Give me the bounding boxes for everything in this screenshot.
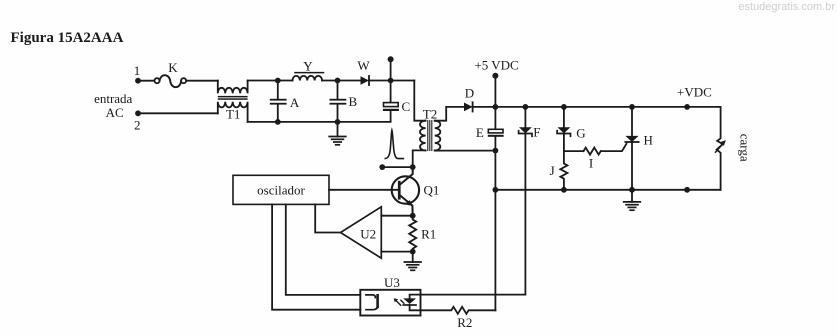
node B bottom <box>335 119 341 125</box>
node rail J <box>561 187 567 193</box>
carga arrow <box>716 143 724 152</box>
node R1 bottom <box>410 249 416 255</box>
wire to T2 primary <box>414 81 425 121</box>
svg-text:Figura 15A2AAA: Figura 15A2AAA <box>11 30 124 46</box>
flyback pulse annotation <box>385 130 403 158</box>
wire F to U3 <box>421 134 526 295</box>
node rail VDC <box>684 187 690 193</box>
svg-text:R2: R2 <box>457 315 472 330</box>
node A top <box>275 78 281 84</box>
ground (output side) <box>631 190 633 202</box>
svg-text:Y: Y <box>303 59 313 74</box>
svg-text:J: J <box>550 163 555 178</box>
SCR H <box>631 107 633 136</box>
resistor R2 <box>421 307 496 314</box>
T2 secondary top wire <box>435 107 464 121</box>
wire T1 to node A <box>248 80 293 82</box>
fuse K <box>155 78 160 83</box>
svg-text:AC: AC <box>106 105 124 120</box>
svg-text:F: F <box>533 124 540 139</box>
svg-text:T1: T1 <box>226 106 240 121</box>
svg-text:D: D <box>465 85 474 100</box>
ground (R1) <box>412 252 414 262</box>
svg-text:C: C <box>401 99 410 114</box>
svg-text:K: K <box>168 60 178 75</box>
svg-text:U2: U2 <box>360 226 376 241</box>
node B top <box>335 78 341 84</box>
svg-text:+VDC: +VDC <box>677 84 712 99</box>
diode D <box>464 103 473 112</box>
inductor Y <box>293 76 323 81</box>
node H top <box>629 104 635 110</box>
wire I to H gate <box>601 144 627 151</box>
wire G to node J <box>563 134 565 152</box>
node Q1 emitter <box>410 213 416 219</box>
wire term2 to T1 <box>138 112 218 114</box>
DC bottom rail <box>495 189 720 191</box>
svg-text:estudegratis.com.br: estudegratis.com.br <box>738 1 835 13</box>
svg-text:H: H <box>644 133 653 148</box>
svg-text:I: I <box>589 155 593 170</box>
node rail E <box>493 187 499 193</box>
svg-text:T2: T2 <box>423 106 437 121</box>
node C / HV test point <box>388 78 394 84</box>
DC top rail <box>473 106 721 108</box>
node rail H <box>629 187 635 193</box>
terminal 2 <box>135 110 141 116</box>
wire W to C node <box>369 80 414 82</box>
capacitor A <box>277 81 279 99</box>
node A bottom <box>275 119 281 125</box>
zener F <box>524 107 526 127</box>
U2 input wires <box>381 215 412 217</box>
U3 light arrows <box>396 301 401 306</box>
carga load branch <box>717 107 723 190</box>
transformer T2 <box>420 121 426 151</box>
svg-text:Q1: Q1 <box>424 182 440 197</box>
svg-text:1: 1 <box>134 63 141 78</box>
transformer T1 <box>218 81 248 94</box>
svg-text:A: A <box>290 95 300 110</box>
U3 LED <box>410 295 421 299</box>
resistor I <box>584 148 601 155</box>
svg-text:2: 2 <box>134 118 141 133</box>
node Q1 collector <box>410 164 416 170</box>
optocoupler U3 <box>360 290 420 316</box>
diode W <box>361 76 370 85</box>
capacitor B <box>337 81 339 99</box>
wire oscilador to U3 pin1 <box>286 204 361 295</box>
wire fuse to T1 <box>186 80 218 82</box>
resistor R1 <box>409 216 416 252</box>
ground (AC side) <box>337 122 339 137</box>
wire oscilador to U3 pin2 <box>272 204 360 309</box>
wire node J to resistor I <box>564 150 584 152</box>
capacitor E <box>494 107 496 129</box>
svg-text:E: E <box>476 125 484 140</box>
zener G <box>563 107 565 127</box>
svg-text:carga: carga <box>738 134 753 162</box>
wire Y to W <box>322 80 361 82</box>
svg-text:B: B <box>348 94 357 109</box>
svg-text:U3: U3 <box>384 275 400 290</box>
wire term1 to fuse <box>138 80 154 82</box>
node E bottom <box>493 148 499 154</box>
op-amp U2 <box>341 207 382 258</box>
U2 output wire <box>315 204 340 232</box>
pulse baseline with node dots <box>382 166 412 168</box>
svg-text:G: G <box>576 125 585 140</box>
svg-text:R1: R1 <box>421 226 436 241</box>
node VDC <box>684 104 690 110</box>
svg-text:W: W <box>357 58 370 73</box>
transistor Q1 <box>392 176 419 203</box>
resistor J <box>560 151 567 190</box>
wire oscilador to Q1 base <box>329 189 398 191</box>
node E top <box>493 104 499 110</box>
svg-text:oscilador: oscilador <box>257 183 305 198</box>
node F top <box>523 104 529 110</box>
terminal 1 <box>135 78 141 84</box>
oscilador box <box>233 175 329 204</box>
svg-text:+5 VDC: +5 VDC <box>474 57 518 72</box>
node G top <box>561 104 567 110</box>
T2 secondary bottom wire <box>435 150 496 152</box>
wire R2 to rail <box>494 151 496 311</box>
U3 photodetector <box>366 295 375 298</box>
capacitor C <box>390 81 392 103</box>
